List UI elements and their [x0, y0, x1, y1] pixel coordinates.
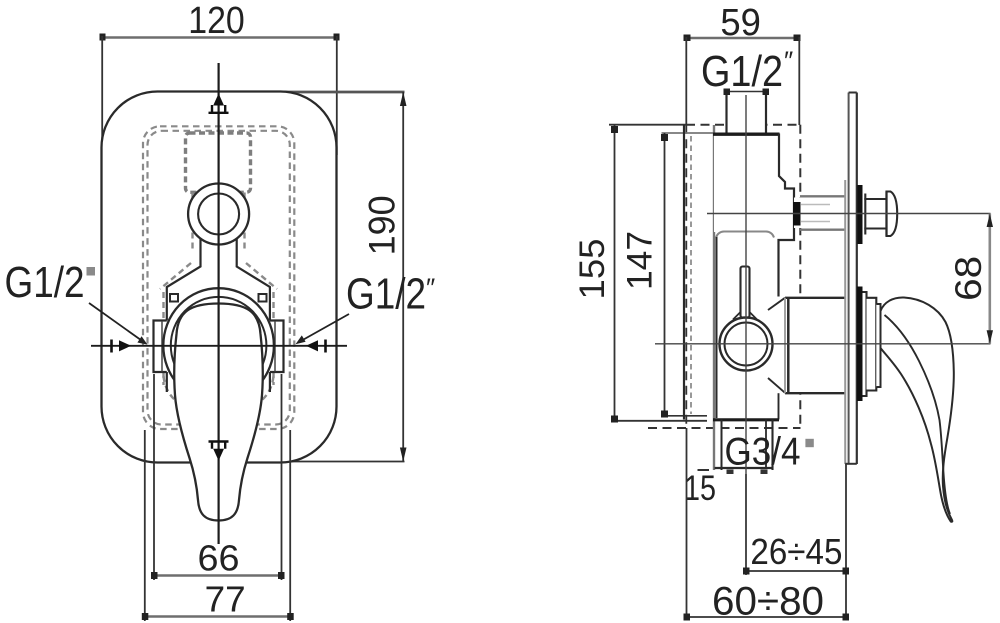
valve vertical centerline [745, 95, 747, 571]
dashed neck hidden line right [243, 193, 245, 253]
svg-text:155: 155 [573, 239, 612, 300]
wall extension line [845, 464, 847, 620]
dim 59 dimension line [686, 37, 800, 40]
dim 147 bottom tick [661, 411, 668, 418]
handle boss ring1 [863, 292, 867, 396]
wall plate top cap [849, 92, 857, 94]
centerline bottom arrow [213, 449, 224, 461]
lever body [881, 297, 954, 521]
dim 59 right extension line [798, 37, 800, 125]
recess box dashed left [685, 125, 687, 428]
handle axis centerline [655, 343, 991, 345]
G3/4 port bottom [715, 467, 773, 469]
svg-text:60÷80: 60÷80 [712, 580, 824, 623]
diverter knob circle outer [188, 184, 249, 245]
body back edge [683, 125, 685, 420]
recess box dashed top [686, 124, 801, 126]
svg-text:68: 68 [948, 256, 989, 301]
G1/2 leader right arrowhead [296, 335, 306, 344]
handle sleeve top line [785, 297, 846, 299]
dim 59 left extension line [685, 37, 687, 125]
dashed neck hidden line left [191, 193, 193, 253]
handle sleeve left face gray [784, 298, 786, 393]
lower body right edge [778, 393, 780, 419]
top pipe G1/2 [727, 92, 767, 134]
diverter black stub [793, 202, 801, 226]
dim 120 right tick [334, 34, 340, 41]
dim 66 dimension line [154, 574, 282, 577]
dim 190 bottom extension line [287, 461, 405, 463]
dashed function box [186, 133, 251, 192]
dim 120 left extension line [101, 36, 103, 155]
dashed body side hidden line right [272, 292, 274, 385]
dim 66 right extension line [281, 374, 283, 580]
handle boss ring2 [867, 298, 877, 391]
wall gray line [844, 180, 846, 464]
escutcheon plate outline [102, 92, 337, 463]
dim 60-80 dimension line [687, 616, 847, 618]
dim 66 right tick [278, 572, 285, 579]
wall plate bottom cap [845, 463, 857, 465]
svg-text:66: 66 [198, 538, 240, 579]
upper body right edge [779, 134, 795, 297]
svg-text:120: 120 [188, 0, 245, 42]
svg-text:″: ″ [426, 273, 435, 303]
horizontal centerline [91, 345, 347, 347]
dim 77 right tick [287, 613, 294, 620]
side port ear right inner line [274, 321, 276, 372]
G3/4 port left inner wall [721, 420, 723, 471]
stem rod flare left [733, 312, 741, 320]
body backplate front edge [713, 125, 715, 470]
dim 190 dimension line [402, 92, 404, 462]
body bottom thick line [713, 418, 779, 421]
recess box dashed bottom [648, 427, 801, 429]
knob stem bottom [864, 227, 886, 229]
screw right [259, 294, 267, 302]
dim 190 top extension line [270, 91, 405, 94]
dim 77 dimension line [145, 615, 290, 618]
knob flange black [857, 185, 862, 244]
cartridge stem rod [741, 267, 750, 318]
diverter axis centerline [707, 213, 991, 215]
knob head [887, 192, 898, 237]
pipe dim line [727, 91, 767, 93]
body flare to sleeve top [768, 298, 785, 310]
handle flange black [857, 287, 863, 402]
stem rod flare right [750, 312, 758, 320]
mid body left edge [716, 237, 718, 418]
pipe dim right tick [763, 89, 770, 96]
dim 155 bottom extension line [612, 420, 707, 422]
side port ear left [154, 321, 167, 373]
handle rosette inner circle [171, 297, 267, 394]
centerline top bracket [209, 105, 229, 113]
G1/2 leader left arrowhead [137, 336, 147, 344]
dim 120 right extension line [336, 36, 338, 155]
G3/4 label quote [805, 439, 813, 447]
dim 68 dimension line [988, 214, 991, 344]
lever crease line [885, 315, 951, 514]
handle boss ring3 [876, 304, 880, 387]
svg-text:G1/2: G1/2 [701, 47, 783, 96]
G1/2 label left quote [87, 267, 96, 276]
dim 120 left tick [100, 34, 106, 41]
body flare to sleeve bottom [768, 378, 785, 393]
svg-text:26÷45: 26÷45 [750, 531, 842, 572]
handle lever blade [174, 304, 262, 521]
dashed flare hidden line right [246, 263, 277, 289]
top pipe right wall [765, 92, 767, 134]
concealed body dashed rounded rect outer [143, 126, 294, 429]
G1/2 leader left [89, 303, 143, 342]
horizontal centerline left arrow tick [110, 340, 113, 353]
dim 147 dimension line [664, 133, 666, 416]
horizontal centerline left arrow [119, 340, 131, 351]
G3/4 port right outer wall [771, 420, 773, 471]
dim 66 left tick [151, 572, 158, 579]
svg-text:147: 147 [620, 231, 659, 290]
diverter pipe [794, 198, 845, 229]
svg-text:G1/2: G1/2 [5, 258, 85, 307]
dim 26-45 dimension line [746, 570, 846, 572]
dashed body bottom hidden arc [164, 376, 274, 412]
handle sleeve bottom line [785, 392, 846, 394]
dim 59 left tick [684, 35, 691, 42]
concealed body dashed rounded rect inner [148, 131, 290, 425]
valve neck and skirt outline left [167, 237, 201, 392]
dashed flare hidden line left [160, 263, 191, 289]
dim 26-45 left tick [743, 568, 750, 575]
screw left [170, 294, 178, 302]
G3/4 port thread stub left [727, 470, 734, 475]
dim 77 left extension line [144, 430, 146, 621]
dim 77 right extension line [289, 430, 291, 621]
dim 60-80 left extension [686, 428, 688, 620]
dim 120 dimension line [102, 36, 337, 39]
dim 60-80 right tick [843, 614, 850, 621]
diverter pipe inner top [801, 204, 830, 206]
dim 26-45 right tick [843, 568, 850, 575]
diverter pipe inner bottom [801, 221, 830, 223]
knob head face line [885, 192, 887, 237]
side port ear left inner line [161, 321, 163, 372]
dim 15 tick line [698, 469, 710, 471]
svg-text:190: 190 [360, 195, 402, 255]
valve neck and skirt outline right [237, 237, 270, 392]
horizontal centerline right arrow tick [324, 340, 327, 353]
upper body bottom arc [716, 232, 774, 238]
dim 155 dimension line [614, 125, 616, 421]
svg-text:G3/4: G3/4 [725, 431, 801, 474]
G1/2 leader right [300, 314, 349, 342]
wall plate front face [856, 93, 858, 465]
G3/4 port thread stub right [761, 470, 768, 475]
top pipe left wall [725, 92, 727, 134]
dim 155 top tick [611, 126, 618, 133]
dim 190 bottom arrow [400, 448, 407, 462]
dim 147 top extension line [662, 132, 715, 134]
svg-text:77: 77 [205, 579, 246, 620]
dim 155 top extension line [609, 124, 686, 126]
svg-text:″: ″ [784, 46, 793, 76]
dim 60-80 left tick [684, 614, 691, 621]
wall plate back face [848, 93, 850, 465]
handle sleeve left face dark [787, 298, 790, 393]
dim 190 top arrow [400, 92, 407, 106]
upper body top cap [713, 132, 780, 135]
svg-text:15: 15 [684, 469, 716, 508]
centerline top arrow [213, 94, 224, 106]
horizontal centerline right arrow [306, 340, 318, 351]
diverter pipe top line [800, 195, 845, 197]
diverter knob circle inner [198, 194, 239, 235]
upper body block [714, 134, 779, 233]
body hidden dashed line [690, 136, 692, 414]
dim 68 bottom arrow [987, 330, 993, 344]
dim 66 left extension line [153, 374, 155, 580]
G3/4 port right inner wall [765, 420, 767, 468]
cartridge circle inner [725, 323, 768, 366]
dim 77 left tick [142, 613, 149, 620]
svg-text:G1/2: G1/2 [346, 270, 426, 319]
handle rosette outer circle [163, 288, 274, 403]
dim 26-45 left extension [745, 474, 747, 575]
cartridge circle outer [720, 318, 773, 371]
knob stem top [864, 198, 886, 200]
handle sleeve [786, 299, 845, 393]
svg-text:59: 59 [720, 2, 761, 44]
dim 59 right tick [794, 35, 801, 42]
dim 147 top tick [661, 134, 668, 141]
dim 155 bottom tick [611, 416, 618, 423]
dashed body side hidden line left [162, 292, 164, 385]
knob flange step [864, 194, 866, 235]
centerline bottom bracket [209, 442, 229, 449]
diverter pipe bottom line [800, 228, 845, 230]
pipe dim left tick [724, 89, 731, 96]
vertical centerline [218, 63, 220, 544]
dim 68 top arrow [987, 214, 993, 228]
dim 147 bottom extension line [662, 415, 708, 417]
side port ear right [270, 321, 284, 373]
recess box dashed right [799, 125, 801, 428]
